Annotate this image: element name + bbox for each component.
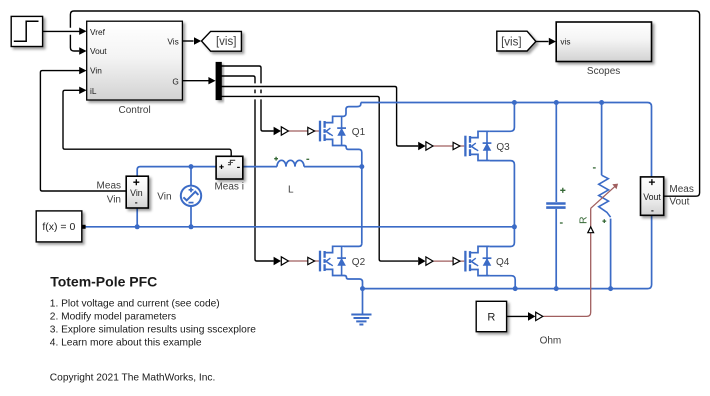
svg-text:Vin: Vin — [157, 192, 171, 203]
svg-text:Meas i: Meas i — [214, 181, 243, 192]
PS port triangle Q2 — [308, 257, 315, 264]
node dot bottom rail Q4 — [513, 286, 518, 291]
solver block f(x)=0 — [36, 211, 85, 242]
svg-text:L: L — [288, 185, 294, 196]
svg-text:Vout: Vout — [643, 192, 661, 202]
port arrow Vout — [79, 47, 86, 54]
port arrow scopes — [549, 38, 556, 45]
svg-text:Vout: Vout — [669, 196, 689, 207]
transistor Q2 — [320, 246, 346, 275]
sensor Meas Vin — [126, 176, 148, 208]
wire PS gate Q2 — [288, 260, 319, 262]
svg-text:R: R — [578, 216, 590, 224]
svg-text:R: R — [487, 312, 495, 324]
resistor R zigzag — [599, 175, 611, 217]
wire Q2 source to ground rail — [344, 276, 363, 289]
node dot AC source top — [189, 164, 194, 169]
wire PS gate Q1 — [288, 130, 319, 132]
wire inductor to node A — [304, 166, 362, 168]
port arrow Vref — [79, 28, 86, 35]
svg-text:2. Modify model parameters: 2. Modify model parameters — [50, 312, 176, 323]
AC source Vin circle — [181, 186, 201, 206]
wire bottom rail — [363, 216, 652, 289]
svg-text:Totem-Pole PFC: Totem-Pole PFC — [50, 274, 157, 290]
WIRES-BLACK — [40, 11, 699, 316]
svg-text:[vis]: [vis] — [216, 36, 236, 48]
svg-text:Vin: Vin — [90, 66, 102, 76]
node dot top rail Q3 — [512, 100, 517, 105]
wire step to Vref — [43, 30, 80, 32]
polarity marks resistor — [593, 168, 606, 223]
transistor Q3 — [465, 131, 491, 160]
wire capacitor top lead — [555, 103, 557, 203]
wire top rail — [361, 103, 652, 177]
wire node A vertical: Q1 source to Q2 drain — [344, 146, 362, 244]
svg-text:1. Plot voltage and current (s: 1. Plot voltage and current (see code) — [50, 298, 220, 309]
svg-text:3. Explore simulation results: 3. Explore simulation results using ssce… — [50, 325, 256, 336]
transistor Q1 — [320, 116, 346, 145]
svg-text:vis: vis — [560, 37, 570, 47]
node dot bottom rail capacitor — [554, 286, 559, 291]
PS port triangle Q4 — [453, 258, 460, 265]
capacitor C plates — [546, 204, 565, 208]
wire AC source bottom lead — [190, 206, 192, 227]
wire PS R control to variable resistor — [543, 208, 590, 316]
wire Q4 source to bottom rail — [490, 276, 516, 289]
wire PS gate Q4 — [433, 260, 464, 262]
goto tag [vis] — [202, 31, 242, 51]
AC source minus — [189, 202, 194, 204]
step source block — [11, 16, 42, 46]
BLOCKS — [11, 16, 664, 331]
wire Vout feedback from Meas Vout right around top to Control Vout — [70, 11, 699, 196]
svg-text:Control: Control — [118, 105, 150, 116]
svg-text:Vin: Vin — [130, 188, 143, 198]
resistor arrow head — [612, 184, 618, 190]
ground stem — [362, 289, 364, 314]
node dot node A inductor — [359, 164, 364, 169]
svg-text:Vout: Vout — [90, 46, 107, 56]
node dot bottom rail resistor — [608, 286, 613, 291]
demux — [216, 62, 222, 100]
resistor variable arrow — [591, 186, 616, 208]
wire AC neutral rail — [86, 226, 513, 228]
svg-text:Vis: Vis — [167, 36, 178, 46]
WIRES-RED — [288, 131, 618, 316]
AC source sine glyph — [183, 192, 198, 201]
port arrow goto — [194, 37, 201, 44]
svg-text:f(x) = 0: f(x) = 0 — [42, 221, 75, 233]
node dot bottom rail ground — [360, 286, 365, 291]
svg-text:Q2: Q2 — [352, 257, 366, 268]
wire Meas i output to Control iL — [63, 90, 231, 156]
svg-text:[vis]: [vis] — [501, 37, 521, 49]
wire Meas i right to inductor — [243, 166, 277, 168]
wire Control G to demux — [182, 80, 208, 82]
port arrow iL — [79, 87, 86, 94]
inductor L coil — [277, 160, 304, 166]
svg-text:Copyright 2021 The MathWorks,: Copyright 2021 The MathWorks, Inc. — [50, 373, 216, 384]
polarity marks inductor — [274, 157, 309, 161]
svg-text:G: G — [172, 76, 178, 86]
wire Meas Vin bottom lead — [136, 208, 138, 227]
wire Q2 drain lead riser — [344, 243, 362, 246]
polarity marks capacitor — [560, 188, 566, 223]
svg-text:Meas: Meas — [97, 181, 121, 192]
wire AC hot: Meas Vin top to Meas i left — [137, 167, 216, 177]
converter S-PS R — [528, 312, 543, 321]
svg-text:Q4: Q4 — [496, 257, 510, 268]
sensor Meas Vout — [641, 177, 664, 215]
PS port triangle resistor control — [588, 227, 594, 233]
svg-text:Vin: Vin — [107, 194, 121, 205]
from tag [vis] — [497, 31, 536, 51]
wire Control Vis to Goto vis — [182, 40, 193, 42]
wire Q1 drain staircase to top rail — [342, 103, 361, 117]
wire node B vertical: Q3 source to Q4 drain — [490, 161, 515, 247]
constant block R — [476, 301, 506, 331]
node dot top rail resistor — [599, 100, 604, 105]
wire resistor top lead — [601, 103, 603, 176]
converter S-PS Q2 — [274, 257, 289, 266]
WIRES-BLUE — [86, 100, 652, 325]
svg-text:4. Learn more about this examp: 4. Learn more about this example — [50, 338, 202, 349]
sensor Meas i — [216, 156, 243, 179]
wire From vis to Scopes — [536, 41, 549, 43]
node dot top rail capacitor — [554, 100, 559, 105]
wire resistor bottom lead — [610, 219, 612, 289]
wire PS gate Q3 — [433, 145, 465, 147]
wire capacitor bottom lead — [555, 209, 557, 289]
wire R constant to converter — [507, 315, 528, 317]
svg-text:iL: iL — [90, 86, 97, 96]
subsystem Control — [87, 21, 183, 100]
node dot neutral AC source — [189, 224, 194, 229]
node dot neutral node B — [512, 224, 517, 229]
wire demux out2 to Q2 gate driver — [221, 76, 274, 261]
svg-text:Q3: Q3 — [496, 142, 510, 153]
wire AC source top lead — [190, 167, 192, 186]
port arrow demux — [208, 77, 215, 84]
PS port triangle Q3 — [453, 142, 460, 149]
subsystem Scopes — [556, 22, 651, 62]
svg-text:Q1: Q1 — [352, 127, 366, 138]
wire demux out3 to Q3 gate driver — [221, 87, 418, 147]
svg-text:Vref: Vref — [90, 27, 106, 37]
port arrow Vin — [79, 67, 86, 74]
converter S-PS Q3 — [418, 142, 433, 151]
ground symbol — [351, 315, 371, 325]
PS port triangle Q1 — [308, 127, 315, 134]
svg-text:Scopes: Scopes — [587, 66, 620, 77]
wire Meas Vin output to Control Vin — [40, 71, 126, 191]
svg-text:Meas: Meas — [669, 184, 693, 195]
converter S-PS Q4 — [418, 257, 433, 266]
wire demux out1 to Q1 gate driver — [221, 66, 274, 131]
svg-text:Ohm: Ohm — [540, 336, 562, 347]
wire Q3 drain riser to top rail — [490, 103, 515, 132]
node dot neutral Meas Vin — [135, 224, 140, 229]
converter S-PS Q1 — [274, 127, 289, 136]
AC source plus — [189, 187, 194, 192]
transistor Q4 — [465, 246, 491, 275]
wire demux out4 to Q4 gate driver — [221, 96, 418, 261]
